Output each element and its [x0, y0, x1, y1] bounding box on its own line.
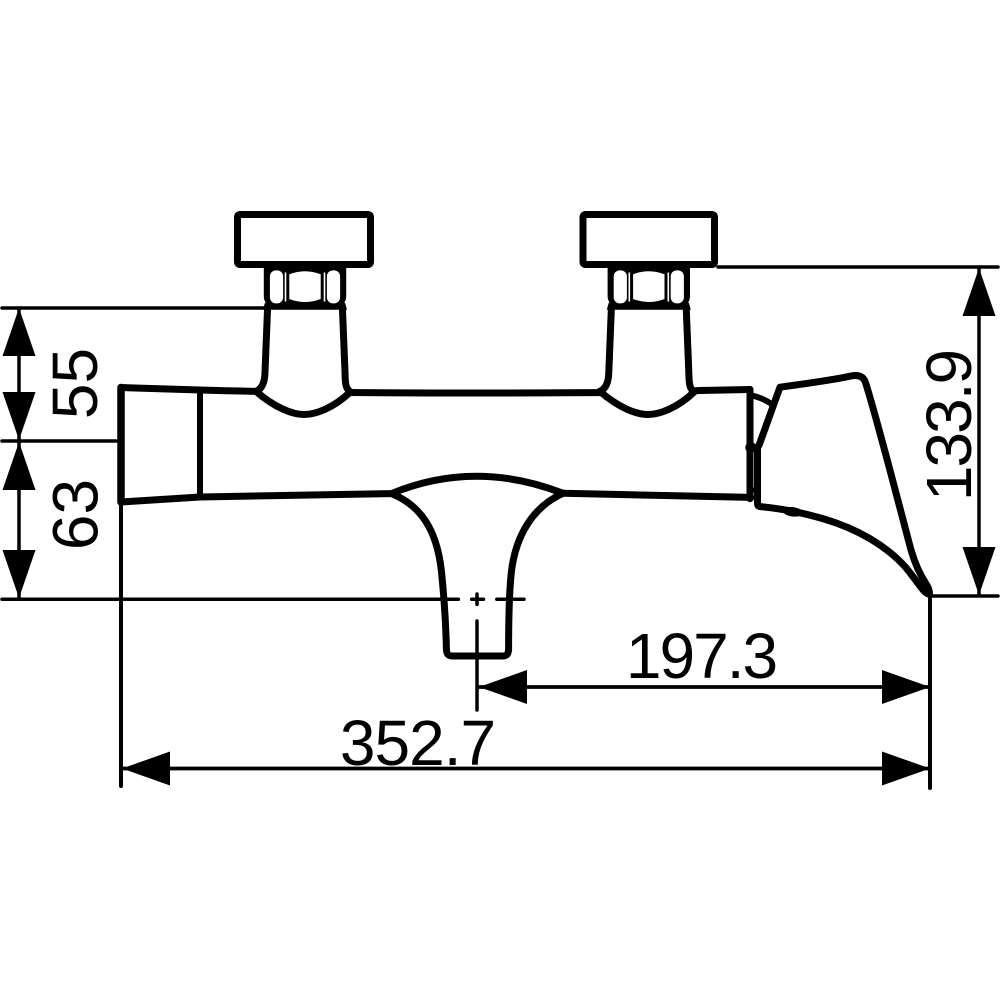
body left cap seam	[197, 390, 203, 497]
left extension line for 352.7	[119, 503, 123, 786]
pivot dot on body cap	[745, 442, 756, 453]
right hex nut	[607, 268, 691, 310]
faucet body top edge	[121, 388, 750, 394]
right valve neck	[600, 310, 695, 415]
dimension line 352.7	[122, 767, 930, 771]
step between body cap and handle	[750, 487, 758, 493]
arrow 63 down	[3, 550, 36, 598]
svg-text:133.9: 133.9	[913, 351, 985, 501]
right wall plate	[583, 215, 715, 265]
svg-text:55: 55	[39, 348, 111, 419]
spout vertical centerline	[475, 594, 479, 710]
body left end cap	[117, 388, 125, 503]
arrow 197.3 right	[882, 670, 930, 704]
arrow 133.9 down	[963, 547, 996, 595]
arrow 197.3 left	[479, 670, 527, 704]
left wall plate	[238, 215, 371, 265]
left dimension line	[17, 308, 21, 599]
faucet body bottom edge left segment	[121, 494, 392, 502]
arrow 55 down	[3, 392, 36, 440]
arrow 352.7 left	[122, 752, 170, 786]
left valve neck	[256, 310, 351, 415]
right dimension line 133.9	[977, 268, 981, 595]
arrow 133.9 up	[963, 268, 996, 316]
svg-text:197.3: 197.3	[626, 620, 776, 692]
lever handle	[758, 375, 930, 594]
right extension line for 197.3 and 352.7	[928, 597, 932, 788]
svg-text:63: 63	[40, 479, 112, 550]
arrow 55 up	[3, 308, 36, 356]
dimension extension line top-left (y 308)	[2, 306, 264, 310]
right extension line bottom (y 596)	[930, 594, 998, 598]
dimension line 197.3	[479, 685, 930, 689]
arrow 63 up	[3, 442, 36, 490]
body right end cap	[747, 390, 754, 499]
spout	[392, 476, 564, 656]
cartridge collar arc	[751, 395, 773, 405]
blob detail on handle bottom edge	[782, 506, 803, 518]
faucet body bottom edge right segment	[563, 493, 751, 497]
arrow 352.7 right	[882, 752, 930, 786]
right extension line top (y 267)	[718, 265, 998, 269]
dimension extension line mid-left (y 441)	[2, 439, 116, 443]
svg-text:352.7: 352.7	[340, 707, 495, 779]
left hex nut	[263, 268, 347, 310]
spout axis horizontal centerline	[2, 598, 524, 602]
